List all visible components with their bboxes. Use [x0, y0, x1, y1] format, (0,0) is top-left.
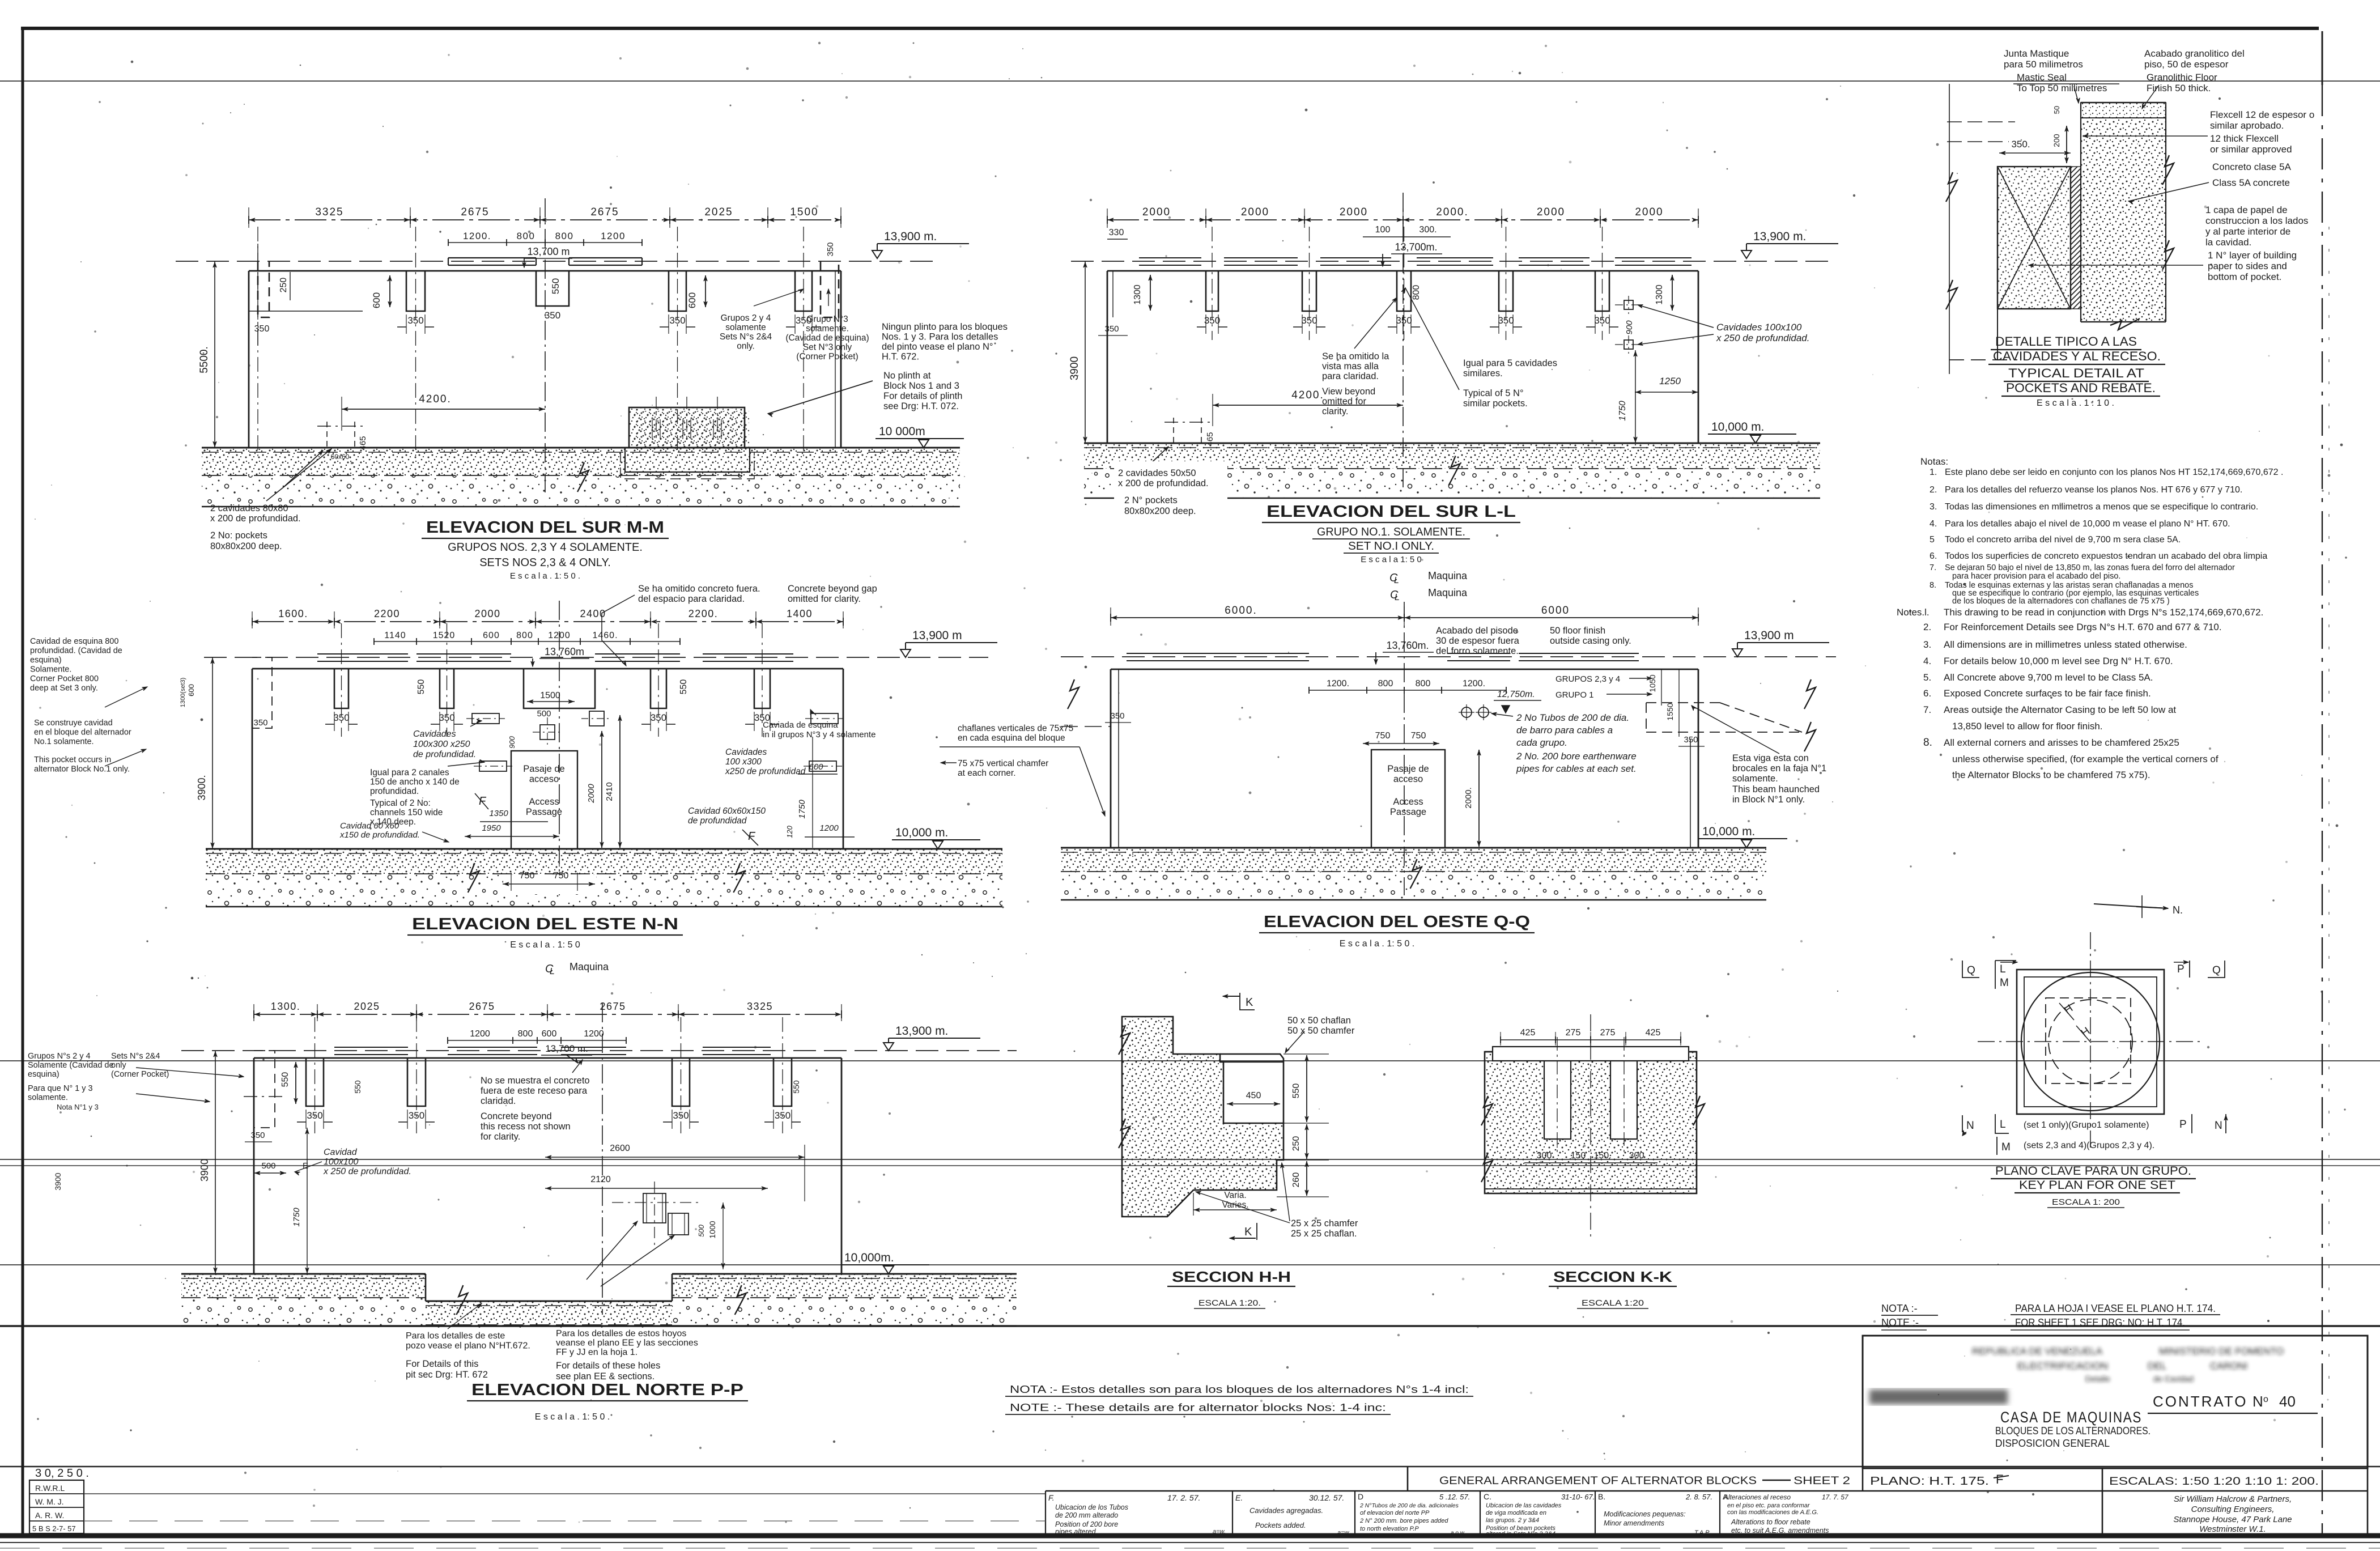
svg-text:100x100: 100x100: [324, 1157, 358, 1167]
svg-text:1250: 1250: [1659, 376, 1681, 386]
svg-text:8.: 8.: [1923, 737, 1932, 749]
svg-text:clarity.: clarity.: [1322, 406, 1348, 417]
svg-text:paper to sides and: paper to sides and: [2208, 261, 2287, 271]
svg-text:600: 600: [371, 292, 382, 308]
svg-text:see plan EE & sections.: see plan EE & sections.: [556, 1371, 654, 1382]
svg-text:de 200 mm alterado: de 200 mm alterado: [1055, 1511, 1118, 1519]
svg-text:o: o: [2263, 1395, 2268, 1404]
svg-text:Exposed Concrete surfaces t: Exposed Concrete surfaces to be fair fac…: [1944, 688, 2151, 699]
svg-text:1950: 1950: [482, 823, 501, 833]
svg-text:550: 550: [353, 1080, 362, 1094]
svg-text:the Alternator Blocks to be: the Alternator Blocks to be chamfered 75…: [1952, 770, 2150, 780]
svg-text:600: 600: [687, 292, 698, 308]
svg-text:x250 de profundidad: x250 de profundidad: [725, 767, 806, 776]
svg-text:550: 550: [1291, 1083, 1301, 1099]
svg-text:120: 120: [785, 825, 794, 838]
svg-text:150 de ancho x 140 de: 150 de ancho x 140 de: [370, 777, 460, 787]
svg-text:Alterations to floor rebate: Alterations to floor rebate: [1731, 1518, 1810, 1526]
svg-text:2000.: 2000.: [1464, 787, 1473, 809]
svg-text:4200.: 4200.: [1291, 389, 1324, 401]
svg-text:outside casing only.: outside casing only.: [1550, 636, 1631, 646]
svg-text:3900: 3900: [53, 1172, 62, 1190]
svg-text:NOTE :-: NOTE :-: [1881, 1317, 1919, 1328]
svg-text:1050: 1050: [1648, 674, 1657, 692]
svg-text:Position of 200 bore: Position of 200 bore: [1055, 1520, 1118, 1528]
svg-text:Cavidad 60x60x150: Cavidad 60x60x150: [688, 806, 766, 816]
svg-text:2 No. 200 bore earthenware: 2 No. 200 bore earthenware: [1516, 751, 1637, 762]
svg-text:Se ha omitido la: Se ha omitido la: [1322, 351, 1389, 362]
svg-text:13,900 m.: 13,900 m.: [895, 1025, 948, 1038]
svg-text:for clarity.: for clarity.: [481, 1132, 520, 1142]
svg-text:a=w.: a=w.: [1337, 1529, 1350, 1536]
svg-text:F.: F.: [1048, 1493, 1055, 1502]
svg-text:2675: 2675: [469, 1001, 495, 1012]
svg-text:5500.: 5500.: [198, 346, 210, 373]
svg-text:vista mas alla: vista mas alla: [1322, 362, 1379, 372]
svg-text:pipes altered.: pipes altered.: [1055, 1528, 1098, 1536]
svg-text:similares.: similares.: [1463, 368, 1503, 379]
svg-text:Sir William Halcrow & Partn: Sir William Halcrow & Partners,: [2174, 1494, 2292, 1504]
svg-text:1200: 1200: [601, 231, 626, 241]
svg-text:7.: 7.: [1923, 704, 1931, 715]
svg-text:800: 800: [518, 1029, 533, 1039]
svg-text:Maquina: Maquina: [569, 961, 609, 972]
svg-text:omitted for clarity.: omitted for clarity.: [788, 594, 861, 604]
svg-text:3.: 3.: [1923, 639, 1931, 650]
svg-text:de Cavidad: de Cavidad: [2153, 1374, 2194, 1383]
svg-text:1500: 1500: [790, 206, 818, 218]
svg-text:800: 800: [1412, 285, 1421, 300]
svg-text:Flexcell 12 de espesor o: Flexcell 12 de espesor o: [2210, 109, 2314, 120]
svg-text:To Top 50 millimetres: To Top 50 millimetres: [2017, 83, 2107, 94]
svg-text:200: 200: [2052, 134, 2061, 147]
svg-text:750: 750: [520, 871, 535, 881]
svg-text:2600: 2600: [610, 1144, 630, 1153]
svg-text:13,760m.: 13,760m.: [1386, 640, 1429, 651]
svg-text:del forro solamente.: del forro solamente.: [1436, 646, 1519, 656]
svg-text:Concrete beyond gap: Concrete beyond gap: [788, 584, 877, 594]
svg-text:x 250 de profundidad.: x 250 de profundidad.: [323, 1167, 411, 1176]
svg-text:2 N° pockets: 2 N° pockets: [1124, 495, 1178, 505]
svg-text:BLOQUES DE LOS ALTERN: BLOQUES DE LOS ALTERNADORES.: [1995, 1425, 2150, 1437]
svg-text:3900: 3900: [1069, 356, 1081, 380]
svg-text:Todos los superficies de concr: Todos los superficies de concreto expues…: [1945, 551, 2267, 561]
svg-text:550: 550: [792, 1080, 801, 1094]
svg-text:1500: 1500: [540, 691, 560, 700]
svg-text:CONTRATO: CONTRATO: [2153, 1393, 2247, 1410]
svg-text:ESCALAS: 1:50 1:20 1:10 1:: ESCALAS: 1:50 1:20 1:10 1: 200.: [2109, 1476, 2319, 1488]
svg-text:1750: 1750: [797, 800, 807, 819]
svg-text:Grupos N°s 2 y 4: Grupos N°s 2 y 4: [28, 1052, 91, 1061]
svg-text:2025: 2025: [354, 1001, 380, 1012]
svg-text:P: P: [2177, 963, 2184, 975]
svg-text:CARONI: CARONI: [2210, 1361, 2247, 1371]
svg-text:600: 600: [809, 762, 823, 772]
svg-text:350: 350: [1110, 711, 1124, 721]
svg-text:N.: N.: [2173, 904, 2183, 916]
svg-text:E s c a l a . 1 : 1 0 .: E s c a l a . 1 : 1 0 .: [2037, 398, 2114, 408]
svg-text:para hacer provision para el a: para hacer provision para el acabado del…: [1952, 572, 2120, 581]
svg-text:2000: 2000: [586, 784, 596, 804]
svg-text:pit sec Drg: HT. 672: pit sec Drg: HT. 672: [406, 1370, 488, 1380]
svg-text:6000.: 6000.: [1225, 605, 1257, 617]
svg-text:2000: 2000: [1537, 206, 1565, 218]
svg-text:y al parte interior de: y al parte interior de: [2205, 226, 2290, 237]
svg-text:1400: 1400: [787, 608, 813, 619]
svg-text:17. 7. 57: 17. 7. 57: [1822, 1493, 1849, 1501]
svg-text:piso, 50 de espesor: piso, 50 de espesor: [2144, 59, 2229, 70]
svg-text:For details below 10,000 m l: For details below 10,000 m level see Drg…: [1944, 656, 2173, 666]
svg-text:para 50 milimetros: para 50 milimetros: [2004, 59, 2083, 70]
svg-text:350: 350: [1684, 735, 1698, 745]
svg-text:veanse el plano EE y las secci: veanse el plano EE y las secciones: [556, 1338, 698, 1348]
svg-text:ELEVACION DEL ESTE N-N: ELEVACION DEL ESTE N-N: [412, 915, 678, 933]
svg-text:For Details of this: For Details of this: [406, 1359, 478, 1369]
svg-text:1200: 1200: [470, 1029, 490, 1039]
svg-text:E s c a l a . 1: 5 0 .: E s c a l a . 1: 5 0 .: [510, 571, 580, 581]
svg-text:Todas las dimensiones en milim: Todas las dimensiones en milimetros a me…: [1945, 502, 2258, 512]
svg-text:Nota N°1 y 3: Nota N°1 y 3: [57, 1103, 99, 1111]
svg-text:Concrete beyond: Concrete beyond: [481, 1111, 552, 1121]
svg-text:M: M: [2000, 977, 2009, 989]
svg-text:x 200 de profundidad.: x 200 de profundidad.: [210, 513, 301, 524]
svg-text:Pasaje de: Pasaje de: [1387, 764, 1429, 774]
svg-text:1 capa de papel de: 1 capa de papel de: [2205, 205, 2288, 215]
svg-text:Igual para 2 canales: Igual para 2 canales: [370, 768, 449, 777]
svg-text:350.: 350.: [2011, 139, 2030, 150]
svg-text:del espacio para claridad.: del espacio para claridad.: [638, 594, 745, 604]
svg-text:6.: 6.: [1923, 688, 1931, 699]
svg-text:Access: Access: [1393, 797, 1423, 807]
svg-text:L: L: [1394, 576, 1399, 585]
svg-text:H.T. 672.: H.T. 672.: [882, 352, 919, 362]
svg-text:Acabado granolitico del: Acabado granolitico del: [2144, 48, 2245, 59]
svg-text:(set 1 only)(Grupo1 solamente): (set 1 only)(Grupo1 solamente): [2024, 1120, 2149, 1130]
svg-text:30.12. 57.: 30.12. 57.: [1309, 1493, 1344, 1502]
svg-text:in il grupos N°3 y 4 solamente: in il grupos N°3 y 4 solamente: [763, 730, 875, 740]
svg-text:Q: Q: [2212, 964, 2221, 976]
svg-text:ESCALA 1:20.: ESCALA 1:20.: [1198, 1298, 1261, 1308]
svg-text:ELEVACION DEL NORTE P-P: ELEVACION DEL NORTE P-P: [471, 1381, 743, 1399]
svg-text:1200.: 1200.: [1327, 679, 1349, 689]
svg-text:10,000m.: 10,000m.: [844, 1251, 894, 1264]
svg-text:alternator Block No.1 only.: alternator Block No.1 only.: [34, 765, 130, 774]
svg-text:in Block N°1 only.: in Block N°1 only.: [1732, 794, 1805, 805]
svg-text:SET NO.I ONLY.: SET NO.I ONLY.: [1348, 540, 1434, 553]
svg-text:425: 425: [1646, 1028, 1661, 1038]
svg-text:con las modificaciones de A.E.: con las modificaciones de A.E.G.: [1727, 1509, 1818, 1516]
svg-text:see Drg: H.T. 072.: see Drg: H.T. 072.: [883, 401, 959, 411]
svg-text:1300: 1300: [1133, 284, 1142, 305]
svg-text:4.: 4.: [1923, 656, 1931, 666]
svg-text:1750: 1750: [1618, 401, 1627, 421]
svg-text:NOTE :- These details are fo: NOTE :- These details are for alternator…: [1010, 1402, 1386, 1413]
svg-text:Para los detalles de este: Para los detalles de este: [406, 1331, 505, 1341]
svg-text:2675: 2675: [600, 1001, 626, 1012]
svg-text:1200.: 1200.: [463, 231, 491, 241]
svg-text:Ubicacion de las cavidades: Ubicacion de las cavidades: [1486, 1502, 1562, 1509]
svg-text:Modificaciones pequenas:: Modificaciones pequenas:: [1604, 1510, 1686, 1518]
svg-text:Cavidad: Cavidad: [324, 1148, 358, 1157]
svg-text:Sets N°s 2&4: Sets N°s 2&4: [111, 1052, 160, 1061]
svg-text:Class 5A concrete: Class 5A concrete: [2212, 177, 2290, 188]
svg-text:2675: 2675: [461, 206, 489, 218]
svg-text:las grupos. 2 y 3&4: las grupos. 2 y 3&4: [1486, 1517, 1539, 1524]
svg-text:13,700m.: 13,700m.: [1395, 241, 1437, 253]
svg-text:claridad.: claridad.: [481, 1096, 516, 1106]
svg-text:1750: 1750: [292, 1208, 301, 1227]
svg-text:de los bloques de la alter: de los bloques de la alternadores con ch…: [1952, 597, 2170, 606]
svg-text:Esta viga esta con: Esta viga esta con: [1732, 753, 1809, 763]
svg-text:550: 550: [416, 679, 426, 695]
svg-text:750: 750: [1411, 731, 1426, 741]
svg-text:x150 de profundidad.: x150 de profundidad.: [339, 830, 420, 840]
svg-text:250: 250: [1291, 1136, 1301, 1151]
svg-text:de profundidad.: de profundidad.: [413, 750, 476, 759]
svg-text:1200.: 1200.: [1463, 679, 1485, 689]
svg-text:Grupo N°3: Grupo N°3: [806, 315, 848, 324]
svg-text:350: 350: [545, 310, 560, 321]
svg-text:Maquina: Maquina: [1428, 570, 1468, 581]
svg-text:600: 600: [542, 1029, 557, 1039]
svg-text:50 x 50 chamfer: 50 x 50 chamfer: [1287, 1026, 1355, 1036]
svg-text:similar pockets.: similar pockets.: [1463, 398, 1528, 409]
svg-text:No plinth at: No plinth at: [883, 371, 931, 381]
svg-text:800: 800: [516, 631, 533, 640]
svg-text:E.: E.: [1235, 1493, 1243, 1502]
svg-text:K: K: [1244, 1226, 1252, 1238]
svg-text:Notes.l.: Notes.l.: [1897, 607, 1929, 618]
svg-text:solamente.: solamente.: [28, 1093, 68, 1102]
svg-text:omitted for: omitted for: [1322, 397, 1366, 407]
svg-text:Q: Q: [1967, 964, 1975, 976]
svg-text:Pockets added.: Pockets added.: [1255, 1521, 1306, 1529]
svg-text:REPUBLICA DE VENEZUELA: REPUBLICA DE VENEZUELA: [1972, 1346, 2103, 1357]
svg-text:100x300 x250: 100x300 x250: [413, 740, 470, 749]
svg-text:only: only: [111, 1061, 126, 1070]
svg-text:2 No: pockets: 2 No: pockets: [210, 530, 267, 541]
svg-text:10 000m: 10 000m: [879, 425, 925, 438]
svg-text:a.o.w.: a.o.w.: [1451, 1530, 1465, 1536]
svg-text:600: 600: [187, 684, 195, 696]
svg-text:350: 350: [250, 1131, 265, 1140]
svg-text:DEL: DEL: [2148, 1361, 2166, 1371]
svg-text:No.1 solamente.: No.1 solamente.: [34, 737, 94, 746]
svg-text:B.: B.: [1598, 1492, 1605, 1501]
svg-text:FOR SHEET 1 SEE DRG: NO: H.T: FOR SHEET 1 SEE DRG: NO: H.T. 174.: [2015, 1317, 2185, 1328]
svg-text:30 de espesor fuera: 30 de espesor fuera: [1436, 636, 1520, 646]
svg-text:8.: 8.: [1929, 581, 1936, 590]
svg-text:pipes for cables at each set: pipes for cables at each set.: [1516, 763, 1637, 774]
svg-text:N: N: [1966, 1120, 1974, 1132]
svg-text:Acabado del pisode: Acabado del pisode: [1436, 626, 1518, 636]
svg-text:Cavidades: Cavidades: [413, 729, 456, 739]
svg-text:900: 900: [1625, 320, 1634, 335]
svg-text:GRUPOS NOS. 2,3 Y 4 SOLAMENTE.: GRUPOS NOS. 2,3 Y 4 SOLAMENTE.: [448, 541, 643, 554]
svg-text:Areas outside the Alternato: Areas outside the Alternator Casing to b…: [1944, 704, 2176, 715]
svg-text:L: L: [2000, 1119, 2006, 1131]
svg-text:C.: C.: [1484, 1492, 1491, 1501]
svg-text:Solamente.: Solamente.: [30, 665, 71, 674]
svg-text:Para los detalles del refuerzo: Para los detalles del refuerzo veanse lo…: [1945, 485, 2242, 495]
svg-text:altered in Sets N°s 2,3&4: altered in Sets N°s 2,3&4: [1486, 1531, 1555, 1537]
svg-text:ELEVACION DEL SUR M-M: ELEVACION DEL SUR M-M: [426, 519, 664, 537]
svg-text:Junta Mastique: Junta Mastique: [2004, 48, 2069, 59]
svg-text:SECCION K-K: SECCION K-K: [1553, 1268, 1672, 1285]
svg-text:P: P: [2179, 1119, 2187, 1131]
svg-text:de profundidad: de profundidad: [688, 816, 747, 826]
svg-text:E s c a l a . 1: 5 0: E s c a l a . 1: 5 0: [510, 940, 580, 950]
svg-text:L: L: [2000, 963, 2006, 975]
svg-text:13,760m: 13,760m: [545, 646, 584, 657]
svg-text:2000: 2000: [1241, 206, 1269, 218]
svg-text:Caviada de esquina: Caviada de esquina: [763, 720, 838, 730]
svg-text:TYPICAL DETAIL AT: TYPICAL DETAIL AT: [2008, 366, 2144, 380]
svg-text:6.: 6.: [1929, 551, 1937, 561]
svg-text:GRUPO 1: GRUPO 1: [1555, 690, 1594, 700]
svg-text:550: 550: [280, 1072, 290, 1087]
svg-text:M: M: [2001, 1141, 2011, 1153]
svg-text:Varia.: Varia.: [1224, 1191, 1246, 1200]
svg-text:CASA DE MAQUINAS: CASA DE MAQUINAS: [2000, 1409, 2142, 1426]
svg-text:fuera de este receso para: fuera de este receso para: [481, 1086, 588, 1096]
svg-text:10,000 m.: 10,000 m.: [1702, 825, 1755, 838]
svg-text:only.: only.: [737, 342, 755, 351]
svg-text:800: 800: [1416, 679, 1431, 689]
svg-text:Typical of 5 N°: Typical of 5 N°: [1463, 388, 1524, 398]
svg-text:13,900 m.: 13,900 m.: [884, 230, 937, 243]
svg-text:(Cavidad de esquina): (Cavidad de esquina): [785, 333, 869, 343]
svg-text:450: 450: [1246, 1091, 1261, 1100]
svg-text:K: K: [1246, 996, 1253, 1009]
svg-text:17. 2. 57.: 17. 2. 57.: [1167, 1493, 1200, 1502]
svg-text:Stannope House, 47 Park Lane: Stannope House, 47 Park Lane: [2173, 1515, 2292, 1524]
svg-text:x 250 de profundidad.: x 250 de profundidad.: [1716, 333, 1809, 343]
svg-text:Varies.: Varies.: [1222, 1200, 1248, 1210]
svg-text:12 thick Flexcell: 12 thick Flexcell: [2210, 133, 2279, 144]
svg-text:(sets 2,3 and 4)(Grupos 2,3 y: (sets 2,3 and 4)(Grupos 2,3 y 4).: [2024, 1141, 2154, 1150]
svg-text:Consulting Engineers,: Consulting Engineers,: [2191, 1505, 2275, 1514]
svg-text:This pocket occurs in: This pocket occurs in: [34, 755, 111, 764]
svg-text:500: 500: [697, 1224, 705, 1236]
svg-text:en el bloque del alternador: en el bloque del alternador: [34, 728, 131, 737]
svg-text:Cavidades agregadas.: Cavidades agregadas.: [1249, 1506, 1323, 1515]
svg-text:Passage: Passage: [1390, 807, 1426, 817]
svg-text:N: N: [2252, 1393, 2263, 1410]
svg-text:en el piso etc. para conformar: en el piso etc. para conformar: [1727, 1502, 1810, 1509]
svg-text:750: 750: [1375, 731, 1391, 741]
svg-text:350: 350: [254, 324, 270, 334]
svg-text:Detalle: Detalle: [2085, 1374, 2110, 1383]
svg-text:MINISTERIO DE FOMENTO: MINISTERIO DE FOMENTO: [2159, 1346, 2284, 1357]
svg-text:300: 300: [1629, 1151, 1644, 1161]
svg-text:800: 800: [555, 231, 574, 241]
svg-text:T.A.P.: T.A.P.: [1694, 1529, 1710, 1536]
svg-text:E s c a l a . 1: 5 0 .: E s c a l a . 1: 5 0 .: [1340, 939, 1415, 949]
svg-text:solamente: solamente: [725, 323, 766, 333]
svg-text:800: 800: [517, 231, 535, 241]
svg-text:Passage: Passage: [526, 807, 562, 817]
svg-text:Cavidad de esquina 800: Cavidad de esquina 800: [30, 637, 118, 646]
svg-text:ELEVACION DEL OESTE Q-Q: ELEVACION DEL OESTE Q-Q: [1264, 913, 1530, 931]
svg-text:Todo el concreto arriba del ni: Todo el concreto arriba del nivel de 9,7…: [1945, 535, 2181, 545]
svg-text:50 floor finish: 50 floor finish: [1550, 626, 1605, 636]
svg-text:SETS NOS 2,3 & 4 ONLY.: SETS NOS 2,3 & 4 ONLY.: [479, 556, 611, 569]
svg-text:4.: 4.: [1929, 519, 1937, 529]
svg-text:Typical of 2 No:: Typical of 2 No:: [370, 798, 431, 808]
svg-text:profundidad.: profundidad.: [370, 787, 419, 796]
svg-text:Para los detalles abajo el niv: Para los detalles abajo el nivel de 10,0…: [1945, 519, 2230, 529]
svg-text:etc. to suit A.E.G. amendment: etc. to suit A.E.G. amendments: [1731, 1527, 1829, 1535]
svg-text:L: L: [550, 967, 555, 976]
svg-text:ELECTRIFICACION: ELECTRIFICACION: [2017, 1361, 2108, 1371]
svg-text:unless otherwise specified,: unless otherwise specified, (for example…: [1952, 754, 2218, 764]
svg-text:Para los detalles de estos hoy: Para los detalles de estos hoyos: [556, 1329, 686, 1338]
svg-text:Cavidades: Cavidades: [725, 747, 767, 757]
svg-text:1520: 1520: [433, 631, 456, 640]
svg-text:acceso: acceso: [1393, 774, 1423, 784]
svg-text:1 N° layer of building: 1 N° layer of building: [2208, 250, 2297, 261]
svg-text:SECCION H-H: SECCION H-H: [1172, 1268, 1291, 1285]
svg-text:ESCALA 1:20: ESCALA 1:20: [1582, 1298, 1644, 1308]
svg-text:1.: 1.: [1929, 468, 1937, 477]
svg-text:2200: 2200: [374, 608, 400, 619]
svg-text:2 N°Tubos de 200 de dia. adici: 2 N°Tubos de 200 de dia. adicionales: [1359, 1502, 1459, 1509]
svg-text:500: 500: [261, 1161, 275, 1171]
svg-text:Cavidad 60 x60: Cavidad 60 x60: [340, 821, 399, 831]
svg-text:chaflanes verticales de 75x75: chaflanes verticales de 75x75: [958, 724, 1073, 733]
svg-text:GRUPOS 2,3 y 4: GRUPOS 2,3 y 4: [1555, 674, 1620, 684]
svg-text:260: 260: [1291, 1172, 1301, 1188]
svg-text:ELEVACION DEL SUR L-L: ELEVACION DEL SUR L-L: [1266, 503, 1516, 521]
svg-text:5.: 5.: [1923, 672, 1931, 683]
svg-text:Se dejaran 50 bajo el nivel de: Se dejaran 50 bajo el nivel de 13,850 m,…: [1945, 563, 2235, 572]
svg-text:2000: 2000: [474, 608, 500, 619]
svg-text:1600.: 1600.: [278, 608, 308, 619]
svg-text:7.: 7.: [1929, 563, 1936, 572]
svg-text:350: 350: [669, 315, 685, 326]
svg-text:5 B S 2-7- 57: 5 B S 2-7- 57: [32, 1524, 76, 1533]
svg-text:DISPOSICION GENERAL: DISPOSICION GENERAL: [1995, 1438, 2110, 1449]
svg-text:para claridad.: para claridad.: [1322, 371, 1379, 381]
svg-text:or similar approved: or similar approved: [2210, 144, 2292, 155]
svg-text:All Concrete above 9,700 m: All Concrete above 9,700 m level to be C…: [1944, 672, 2153, 683]
svg-text:DETALLE TIPICO A LAS: DETALLE TIPICO A LAS: [1995, 334, 2137, 349]
svg-text:a=w.: a=w.: [1213, 1528, 1226, 1535]
svg-text:2 cavidades 80x80: 2 cavidades 80x80: [210, 503, 288, 513]
svg-text:For details of these holes: For details of these holes: [556, 1361, 660, 1371]
svg-text:FF y JJ en la hoja 1.: FF y JJ en la hoja 1.: [556, 1348, 637, 1357]
svg-text:Block Nos 1 and 3: Block Nos 1 and 3: [883, 381, 959, 391]
svg-text:N: N: [2215, 1120, 2222, 1132]
svg-text:300: 300: [1537, 1151, 1552, 1161]
svg-text:350: 350: [253, 718, 267, 728]
svg-text:en cada esquina del bloque: en cada esquina del bloque: [958, 733, 1065, 743]
svg-text:2.: 2.: [1923, 622, 1931, 632]
svg-text:deep at Set 3 only.: deep at Set 3 only.: [30, 684, 98, 693]
svg-text:275: 275: [1566, 1028, 1581, 1038]
svg-text:construccion a los lados: construccion a los lados: [2205, 215, 2308, 226]
svg-text:Maquina: Maquina: [1428, 587, 1468, 598]
svg-text:All external corners and ar: All external corners and arisses to be c…: [1944, 737, 2179, 748]
svg-text:del pinto vease el plano N°: del pinto vease el plano N°: [882, 342, 993, 352]
svg-text:10,000 m.: 10,000 m.: [1711, 420, 1764, 434]
svg-text:750: 750: [554, 871, 569, 881]
svg-text:esquina): esquina): [30, 656, 62, 665]
svg-text:Igual para 5 cavidades: Igual para 5 cavidades: [1463, 358, 1557, 368]
svg-text:3 0, 2 5 0 .: 3 0, 2 5 0 .: [35, 1467, 89, 1480]
svg-text:Sets N°s 2&4: Sets N°s 2&4: [720, 332, 772, 342]
